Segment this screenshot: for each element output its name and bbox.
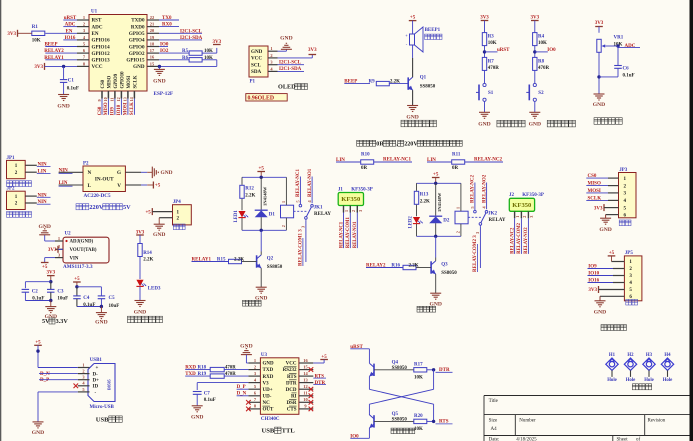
svg-text:RELAY-NC1: RELAY-NC1 [383, 158, 411, 163]
svg-text:2: 2 [254, 364, 256, 369]
svg-text:3V3: 3V3 [588, 288, 597, 293]
svg-text:1: 1 [515, 216, 520, 218]
svg-text:GND: GND [133, 64, 145, 70]
svg-text:Hole: Hole [644, 378, 654, 383]
svg-text:JP4: JP4 [173, 200, 182, 205]
svg-text:MISO: MISO [107, 75, 112, 88]
svg-text:SS8050: SS8050 [441, 271, 457, 276]
svg-text:KF350-3P: KF350-3P [351, 187, 373, 192]
svg-text:GPIO9: GPIO9 [114, 73, 119, 88]
svg-text:2.2K: 2.2K [245, 193, 255, 198]
svg-text:3: 3 [358, 210, 363, 212]
svg-text:R12: R12 [245, 186, 254, 191]
svg-text:Number: Number [519, 419, 536, 424]
svg-text:0.1uF: 0.1uF [204, 398, 216, 403]
svg-text:H4: H4 [664, 353, 671, 358]
svg-text:USB: USB [262, 428, 275, 435]
svg-text:Revision: Revision [648, 419, 666, 424]
svg-text:R15: R15 [217, 257, 226, 262]
svg-text:12: 12 [116, 97, 121, 101]
svg-text:USB1: USB1 [90, 358, 103, 363]
svg-text:R10: R10 [361, 152, 370, 157]
svg-text:TXD: TXD [263, 368, 274, 373]
svg-text:GND: GND [593, 102, 605, 108]
svg-text:GND: GND [153, 232, 165, 238]
svg-text:Q4: Q4 [392, 360, 399, 365]
svg-text:2.2K: 2.2K [143, 258, 153, 263]
svg-text:11: 11 [110, 98, 115, 102]
svg-text:1: 1 [254, 358, 256, 363]
svg-text:3: 3 [300, 226, 305, 228]
svg-text:1: 1 [83, 15, 85, 20]
svg-text:uRST: uRST [497, 48, 510, 53]
svg-text:Title: Title [489, 399, 499, 404]
svg-text:C2: C2 [32, 290, 39, 295]
svg-text:0.96OLED: 0.96OLED [248, 95, 275, 101]
svg-text:0.1uF: 0.1uF [83, 303, 95, 308]
svg-text:1: 1 [344, 210, 349, 212]
svg-text:RXD0: RXD0 [131, 24, 145, 30]
svg-text:11: 11 [303, 391, 307, 396]
svg-text:SDA: SDA [251, 69, 262, 75]
svg-text:470R: 470R [225, 372, 236, 377]
svg-text:220V: 220V [404, 141, 418, 147]
svg-text:Micro-USB: Micro-USB [90, 405, 115, 410]
svg-text:AMS1117-3.3: AMS1117-3.3 [63, 264, 93, 270]
svg-text:10K: 10K [204, 56, 213, 61]
svg-text:RELAY-NO1: RELAY-NO1 [353, 221, 358, 248]
svg-text:+5: +5 [35, 341, 41, 346]
svg-text:3.3V: 3.3V [56, 318, 69, 325]
svg-text:13: 13 [123, 97, 128, 101]
svg-text:H1: H1 [609, 353, 616, 358]
svg-text:N: N [88, 170, 92, 176]
svg-text:R11: R11 [452, 152, 461, 157]
svg-text:C6: C6 [623, 66, 630, 71]
svg-text:Q1: Q1 [420, 76, 427, 81]
svg-text:4/18/2025: 4/18/2025 [516, 437, 537, 441]
svg-text:GND: GND [594, 310, 606, 316]
svg-text:10K: 10K [414, 427, 423, 432]
svg-text:3: 3 [475, 232, 480, 234]
svg-text:R7: R7 [488, 59, 495, 64]
svg-text:+5: +5 [321, 355, 327, 360]
svg-text:JP2: JP2 [7, 187, 16, 192]
svg-text:Q2: Q2 [267, 257, 274, 262]
svg-text:LED2: LED2 [408, 216, 413, 229]
svg-text:DTR: DTR [286, 381, 297, 386]
svg-text:R16: R16 [391, 263, 400, 268]
svg-text:C7: C7 [204, 391, 211, 396]
svg-text:RXD: RXD [185, 366, 196, 371]
svg-text:Hole: Hole [663, 378, 673, 383]
svg-text:V: V [117, 183, 121, 189]
svg-text:G: G [117, 170, 121, 176]
svg-text:ADC: ADC [92, 24, 103, 30]
svg-text:VR1: VR1 [614, 35, 624, 40]
svg-text:ID: ID [93, 385, 99, 390]
svg-text:SCLK: SCLK [130, 102, 135, 115]
svg-text:RELAY-NC2: RELAY-NC2 [474, 158, 502, 163]
svg-text:JP5: JP5 [625, 251, 634, 256]
svg-text:22: 22 [150, 15, 154, 20]
svg-text:+5: +5 [155, 184, 161, 189]
svg-text:9: 9 [97, 99, 102, 101]
svg-text:2: 2 [270, 53, 272, 58]
svg-text:3V3: 3V3 [595, 21, 604, 26]
svg-text:RTS: RTS [315, 375, 325, 380]
svg-text:CH340C: CH340C [261, 417, 280, 422]
svg-text:GND: GND [251, 49, 263, 55]
svg-text:GND: GND [191, 415, 203, 421]
svg-text:RELAY-NC2: RELAY-NC2 [510, 227, 515, 254]
svg-text:10K: 10K [488, 41, 497, 46]
svg-text:DTR: DTR [315, 381, 326, 386]
svg-text:VIN: VIN [70, 256, 79, 261]
svg-text:J2: J2 [509, 193, 515, 198]
svg-text:RELAY-NO1: RELAY-NO1 [308, 168, 313, 197]
svg-text:3V3: 3V3 [480, 15, 489, 20]
svg-text:RELAY-NO2: RELAY-NO2 [524, 227, 529, 254]
svg-text:Q5: Q5 [392, 412, 399, 417]
svg-text:+5: +5 [433, 173, 439, 178]
svg-text:GPIO0: GPIO0 [129, 44, 145, 50]
svg-text:GND: GND [57, 104, 69, 110]
svg-text:1: 1 [270, 46, 272, 51]
svg-text:SCL: SCL [251, 62, 262, 68]
svg-text:C3: C3 [57, 290, 64, 295]
svg-text:R8: R8 [538, 59, 545, 64]
svg-text:+: + [96, 366, 99, 371]
svg-text:LED3: LED3 [148, 286, 161, 291]
svg-text:BEEP1: BEEP1 [425, 28, 441, 33]
svg-text:1: 1 [456, 207, 461, 209]
svg-text:GPIO10: GPIO10 [120, 71, 125, 89]
svg-text:+5: +5 [259, 167, 265, 172]
svg-text:GND: GND [38, 224, 50, 230]
svg-text:R4: R4 [538, 34, 545, 39]
svg-text:D-: D- [93, 372, 99, 377]
svg-text:GND: GND [134, 309, 146, 315]
svg-text:3V3: 3V3 [212, 40, 221, 45]
svg-text:R6: R6 [182, 56, 189, 61]
svg-text:GND: GND [599, 227, 611, 233]
svg-text:KF350: KF350 [341, 196, 361, 203]
svg-text:2: 2 [82, 369, 84, 374]
svg-text:10K: 10K [32, 38, 41, 43]
svg-text:GND: GND [161, 170, 173, 176]
svg-text:H2: H2 [627, 353, 634, 358]
svg-text:U3: U3 [261, 353, 268, 358]
svg-text:MOSI: MOSI [127, 76, 132, 89]
svg-text:RXD: RXD [263, 375, 274, 380]
svg-text:GPIO5: GPIO5 [129, 31, 145, 37]
svg-text:R14: R14 [143, 251, 152, 256]
svg-text:Date:: Date: [489, 437, 500, 441]
svg-text:R17: R17 [414, 362, 423, 367]
svg-text:2: 2 [281, 225, 286, 227]
svg-text:R13: R13 [420, 192, 429, 197]
svg-text:C5: C5 [109, 296, 116, 301]
svg-text:IO0: IO0 [547, 48, 556, 53]
svg-text:GND: GND [529, 122, 541, 128]
svg-text:Size: Size [489, 419, 498, 424]
svg-text:SS8050: SS8050 [267, 265, 283, 270]
svg-text:21: 21 [150, 22, 154, 27]
svg-text:R5: R5 [182, 49, 189, 54]
svg-text:TXD0: TXD0 [131, 18, 145, 24]
svg-text:of: of [636, 437, 641, 441]
svg-text:GND: GND [95, 320, 107, 326]
svg-text:Hole: Hole [626, 378, 636, 383]
svg-text:1N4148W: 1N4148W [437, 192, 442, 212]
svg-text:RELAY-NO2: RELAY-NO2 [482, 174, 487, 203]
svg-text:1: 1 [58, 236, 60, 241]
svg-text:GND: GND [32, 430, 44, 436]
svg-text:GPIO14: GPIO14 [92, 44, 111, 50]
svg-text:1N4148W: 1N4148W [262, 186, 267, 206]
svg-text:RELAY-COM1: RELAY-COM1 [346, 217, 351, 249]
svg-text:SS8050: SS8050 [420, 85, 436, 90]
svg-text:GND: GND [240, 344, 252, 350]
svg-text:JP1: JP1 [7, 156, 16, 161]
svg-text:GND: GND [478, 122, 490, 128]
svg-text:1: 1 [281, 201, 286, 203]
svg-text:CS0: CS0 [98, 106, 103, 115]
svg-text:DCD: DCD [286, 388, 297, 393]
svg-text:ADJ(GND): ADJ(GND) [70, 240, 94, 245]
svg-text:S2: S2 [538, 91, 544, 96]
svg-text:JK2: JK2 [488, 211, 497, 216]
svg-text:VCC: VCC [92, 64, 103, 70]
svg-text:0.1uF: 0.1uF [623, 73, 635, 78]
svg-text:CS0: CS0 [101, 79, 106, 88]
svg-text:5V: 5V [123, 204, 131, 211]
svg-text:10K: 10K [414, 375, 423, 380]
svg-text:GPIO4: GPIO4 [129, 38, 145, 44]
svg-text:Hole: Hole [607, 378, 617, 383]
svg-text:D_N: D_N [40, 372, 50, 377]
svg-text:TTL: TTL [282, 428, 296, 435]
svg-text:470R: 470R [538, 66, 550, 71]
svg-text:A4: A4 [491, 427, 498, 432]
svg-text:GPIO12: GPIO12 [92, 51, 111, 57]
svg-text:AC220-DC5: AC220-DC5 [84, 193, 111, 199]
svg-text:10K: 10K [538, 41, 547, 46]
svg-text:V3: V3 [263, 381, 270, 386]
svg-text:TXD: TXD [185, 372, 196, 377]
svg-text:GPIO2: GPIO2 [129, 51, 145, 57]
svg-text:3V3: 3V3 [308, 48, 317, 53]
svg-text:+5: +5 [609, 251, 615, 256]
svg-text:10uF: 10uF [57, 297, 68, 302]
svg-text:MISO: MISO [104, 102, 109, 115]
svg-text:RTS: RTS [287, 375, 297, 380]
svg-text:3V3: 3V3 [530, 15, 539, 20]
svg-text:2: 2 [456, 231, 461, 233]
svg-text:CTS: CTS [287, 408, 297, 413]
svg-text:RELAY-COM2: RELAY-COM2 [517, 222, 522, 254]
svg-text:RS232: RS232 [283, 368, 297, 373]
svg-text:UD+: UD+ [263, 388, 273, 393]
svg-text:S1: S1 [488, 91, 494, 96]
svg-text:Sheet: Sheet [617, 437, 629, 441]
svg-text:UD-: UD- [263, 394, 272, 399]
svg-text:VCC: VCC [286, 362, 297, 367]
svg-text:IO9: IO9 [111, 107, 116, 116]
svg-text:ADC: ADC [625, 44, 636, 49]
svg-text:0R: 0R [452, 166, 459, 171]
svg-text:2.2K: 2.2K [420, 199, 430, 204]
svg-text:0R: 0R [361, 166, 368, 171]
svg-text:3V3: 3V3 [7, 32, 16, 37]
svg-text:470R: 470R [488, 66, 500, 71]
svg-text:USB: USB [96, 416, 109, 423]
svg-text:RST: RST [92, 18, 103, 24]
svg-text:R3: R3 [488, 34, 495, 39]
svg-text:uRST: uRST [350, 345, 363, 350]
svg-text:ESP-12F: ESP-12F [154, 91, 174, 97]
svg-text:0.1uF: 0.1uF [32, 297, 44, 302]
svg-text:H3: H3 [646, 353, 653, 358]
svg-text:JP3: JP3 [619, 168, 628, 173]
svg-text:3V3: 3V3 [34, 65, 43, 70]
svg-text:GND: GND [280, 35, 292, 41]
svg-text:RELAY-NC1: RELAY-NC1 [339, 221, 344, 248]
svg-text:12: 12 [303, 384, 307, 389]
svg-text:IO0: IO0 [350, 435, 359, 440]
svg-text:KF350-3P: KF350-3P [522, 193, 544, 198]
svg-text:RI: RI [291, 394, 297, 399]
svg-text:D_P: D_P [40, 378, 49, 383]
svg-text:NC: NC [263, 401, 271, 406]
svg-text:5: 5 [470, 206, 475, 208]
svg-text:3: 3 [529, 216, 534, 218]
svg-text:OLED: OLED [278, 84, 296, 91]
svg-text:10: 10 [103, 97, 108, 101]
svg-text:3V3: 3V3 [136, 230, 145, 235]
svg-text:GND: GND [406, 115, 418, 121]
svg-text:D2: D2 [443, 219, 450, 224]
svg-text:IN-OUT: IN-OUT [95, 177, 114, 183]
svg-text:C1: C1 [68, 78, 75, 83]
svg-text:2: 2 [83, 22, 85, 27]
svg-text:C4: C4 [83, 296, 90, 301]
svg-text:P2: P2 [83, 162, 89, 167]
svg-text:D1: D1 [269, 213, 276, 218]
svg-text:+5: +5 [145, 210, 151, 215]
svg-text:220V: 220V [89, 204, 103, 211]
svg-text:3V3: 3V3 [46, 270, 55, 275]
svg-text:GND: GND [153, 79, 165, 85]
svg-text:LED1: LED1 [234, 210, 239, 223]
svg-text:GPIO16: GPIO16 [92, 38, 111, 44]
svg-text:+5: +5 [74, 277, 80, 282]
svg-text:RELAY: RELAY [489, 218, 506, 223]
svg-text:RELAY-NC2: RELAY-NC2 [471, 175, 476, 203]
svg-text:SCLK: SCLK [133, 75, 138, 88]
svg-text:+5: +5 [410, 16, 416, 21]
svg-text:R9: R9 [369, 79, 376, 84]
svg-text:0.1uF: 0.1uF [67, 86, 79, 91]
svg-text:EN: EN [92, 31, 99, 37]
svg-text:R1: R1 [32, 25, 39, 30]
svg-text:JK1: JK1 [314, 205, 323, 210]
svg-text:J1: J1 [338, 187, 344, 192]
svg-text:5: 5 [295, 200, 300, 202]
svg-text:2: 2 [351, 210, 356, 212]
svg-text:RELAY: RELAY [314, 212, 331, 217]
svg-text:10K: 10K [204, 49, 213, 54]
svg-text:D+: D+ [93, 378, 100, 383]
svg-text:R18: R18 [198, 366, 207, 371]
svg-text:GND: GND [263, 362, 275, 367]
svg-text:3V3: 3V3 [48, 248, 57, 253]
svg-text:B0505: B0505 [107, 379, 112, 390]
svg-text:MOSI: MOSI [124, 102, 129, 115]
svg-text:U1: U1 [91, 10, 98, 15]
svg-text:GPIO15: GPIO15 [126, 58, 145, 64]
svg-text:P1: P1 [250, 80, 256, 85]
svg-text:DSR: DSR [286, 401, 296, 406]
svg-text:470R: 470R [225, 366, 236, 371]
svg-text:VCC: VCC [251, 56, 262, 62]
svg-text:VOUT(TAB): VOUT(TAB) [70, 248, 97, 253]
svg-text:OUT: OUT [263, 408, 275, 413]
svg-text:Q3: Q3 [441, 263, 448, 268]
svg-text:R19: R19 [198, 372, 207, 377]
svg-text:IO10: IO10 [117, 104, 122, 115]
svg-text:10uF: 10uF [109, 304, 120, 309]
svg-text:U2: U2 [65, 232, 72, 237]
svg-text:R20: R20 [414, 414, 423, 419]
svg-text:1: 1 [82, 362, 84, 367]
svg-text:RELAY-NC1: RELAY-NC1 [296, 169, 301, 197]
svg-text:2: 2 [522, 216, 527, 218]
svg-text:KF350: KF350 [512, 202, 532, 209]
svg-text:L: L [88, 183, 92, 189]
svg-text:3V3: 3V3 [594, 206, 603, 211]
svg-text:GPIO13: GPIO13 [92, 58, 111, 64]
